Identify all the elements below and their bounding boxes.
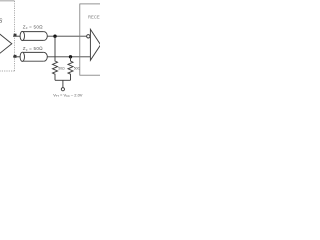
pin Qbar square <box>14 55 17 58</box>
svg-text:RECEIVER: RECEIVER <box>88 14 100 19</box>
node A junction dot <box>53 35 56 38</box>
svg-text:50Ω: 50Ω <box>58 67 65 71</box>
receiver box <box>80 4 102 75</box>
node B junction dot <box>69 55 72 58</box>
driver triangle U1 <box>0 30 12 57</box>
svg-text:Z0 = 50Ω: Z0 = 50Ω <box>23 46 43 52</box>
wire Qbar to TL2 <box>13 56 21 58</box>
transmission line TL1 <box>20 31 47 40</box>
driver dashed box <box>0 1 15 71</box>
svg-text:Z0 = 50Ω: Z0 = 50Ω <box>23 24 43 30</box>
wire TL2 to receiver <box>47 56 90 58</box>
wire TL1 to receiver <box>47 35 86 37</box>
bottom rail wire <box>55 79 71 81</box>
wire Q to TL1 <box>13 35 21 37</box>
VTT stub wire <box>62 80 64 88</box>
transmission line TL2 <box>20 52 47 61</box>
resistor R1 50 ohm <box>53 36 58 80</box>
inversion bubble on top input <box>87 35 90 38</box>
VTT open terminal <box>61 88 64 91</box>
receiver amp U2 <box>90 29 100 60</box>
svg-text:VTT = VCC – 2.0V: VTT = VCC – 2.0V <box>53 92 83 98</box>
resistor R2 50 ohm <box>68 57 73 81</box>
pin Q square <box>14 34 17 37</box>
svg-text:S: S <box>0 19 3 25</box>
